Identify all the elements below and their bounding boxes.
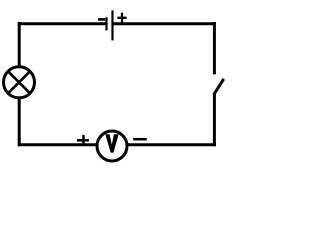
label - (voltmeter right polarity) (133, 138, 147, 141)
wire bottom-left (corner to voltmeter) (18, 143, 97, 146)
wire left upper (corner down to lamp) (18, 22, 21, 67)
wire top-right (battery positive to right corner) (114, 22, 217, 25)
wire bottom-right (voltmeter to bottom-right corner) (128, 143, 217, 146)
lamp L1 (circle) (4, 67, 35, 98)
lamp L1 cross stroke 2 (8, 71, 30, 93)
label - (battery negative) (98, 18, 105, 21)
lamp L1 cross stroke 1 (8, 71, 30, 93)
wire right upper (top corner to switch contact) (213, 22, 216, 74)
battery B1 negative plate (short) (105, 17, 107, 30)
label + (voltmeter left polarity) (77, 135, 89, 144)
label + (battery positive) (117, 13, 126, 23)
wire right lower (switch to bottom corner) (213, 93, 216, 147)
wire left lower (lamp down to bottom corner) (18, 98, 21, 146)
wire top-left (battery negative to left corner) (18, 22, 106, 25)
voltmeter M1 circle (97, 131, 127, 161)
switch S1 lever (open) (215, 79, 224, 93)
battery B1 positive plate (long) (111, 10, 113, 40)
voltmeter M1 letter V (105, 134, 118, 152)
